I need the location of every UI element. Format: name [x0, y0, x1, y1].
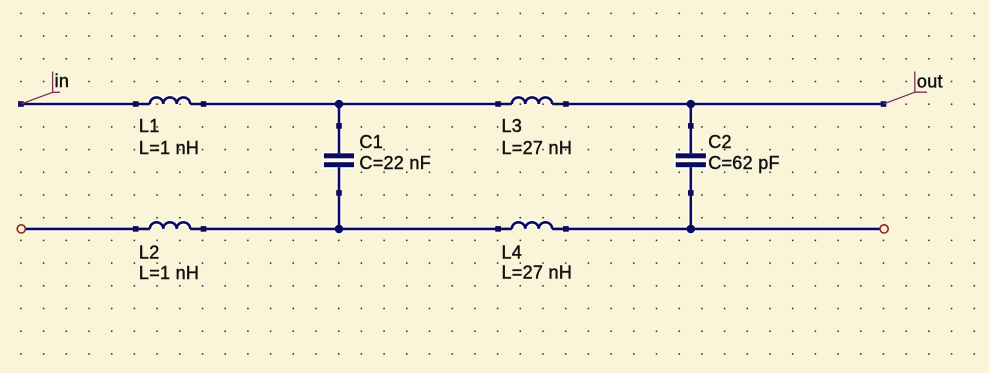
label L2 value [139, 242, 199, 283]
node junction N4 [687, 225, 696, 234]
label L1 value [139, 116, 199, 158]
wire bottom net segment 1 (port to L2) [26, 228, 134, 231]
svg-text:L4: L4 [502, 242, 523, 262]
wire top net segment 1 (in to L1) [21, 103, 133, 106]
navy ink [21, 104, 884, 229]
label L4 value [502, 242, 573, 282]
label C2 value [708, 132, 780, 173]
open port circle bottom-left [17, 225, 25, 233]
svg-text:in: in [55, 71, 70, 91]
label L3 value [502, 116, 573, 158]
inductor L4 [495, 222, 568, 231]
svg-text:C=62 pF: C=62 pF [708, 153, 780, 173]
svg-text:L=1 nH: L=1 nH [139, 138, 199, 158]
svg-text:L3: L3 [502, 116, 523, 136]
svg-text:C1: C1 [359, 132, 383, 152]
svg-text:C2: C2 [708, 132, 732, 152]
svg-text:L1: L1 [139, 116, 160, 136]
node junction N1 [335, 100, 344, 109]
node label marker "out" [884, 72, 928, 105]
wire bottom net segment 3 (L4 to node N4 to port) [567, 228, 880, 231]
capacitor C1 [324, 104, 354, 229]
svg-text:out: out [917, 71, 943, 91]
wire top net segment 2 (L1 to node N1 to L3) [204, 103, 498, 106]
node label marker "in" [21, 72, 60, 105]
svg-text:L=27 nH: L=27 nH [502, 138, 573, 158]
white halo under navy strokes [21, 97, 884, 234]
wire end terminal (out) [881, 101, 887, 107]
open port circle bottom-right [880, 225, 888, 233]
inductor L1 [133, 97, 206, 106]
svg-text:L2: L2 [139, 242, 160, 262]
wire end terminal (in) [18, 101, 24, 107]
node junction N3 [335, 225, 344, 234]
capacitor C2 [676, 104, 706, 229]
svg-text:L=1 nH: L=1 nH [139, 263, 199, 283]
inductor L2 [133, 222, 206, 231]
wire top net segment 3 (L3 to node N2 to out) [567, 103, 884, 106]
node junction N2 [687, 100, 696, 109]
inductor L3 [495, 97, 568, 106]
wire bottom net segment 2 (L2 to node N3 to L4) [204, 228, 498, 231]
svg-text:C=22 nF: C=22 nF [359, 153, 431, 173]
label C1 value [359, 132, 431, 173]
svg-text:L=27 nH: L=27 nH [502, 262, 573, 282]
